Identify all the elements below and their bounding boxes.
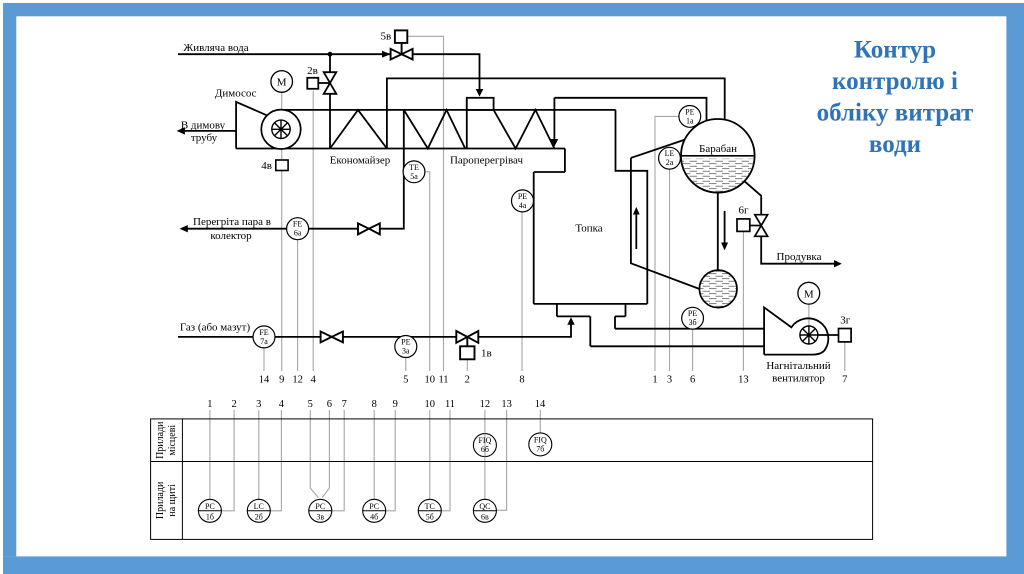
svg-text:14: 14	[259, 374, 270, 385]
instrument LE 2а	[659, 147, 681, 169]
drum water hatch	[681, 159, 754, 192]
instrument PE 1а	[679, 106, 701, 128]
svg-text:7: 7	[342, 399, 347, 410]
superheater coil right	[494, 110, 555, 149]
signal line 11 from valve 5в	[407, 36, 443, 371]
link 11	[441, 410, 450, 511]
svg-text:6: 6	[327, 399, 332, 410]
svg-text:М: М	[804, 288, 814, 300]
drum feed down arrow	[551, 139, 559, 147]
smoke fan wheel	[272, 120, 290, 138]
gas burner pipe	[178, 322, 571, 337]
air duct upper line	[615, 316, 764, 328]
svg-text:FE: FE	[259, 328, 268, 337]
svg-text:колектор: колектор	[210, 230, 252, 242]
svg-text:4: 4	[279, 399, 285, 410]
svg-text:води: води	[869, 131, 921, 158]
svg-text:PE: PE	[688, 309, 697, 318]
svg-text:місцеві: місцеві	[167, 425, 178, 456]
svg-text:PE: PE	[518, 192, 527, 201]
furnace right wall	[616, 110, 648, 304]
svg-text:Топка: Топка	[575, 223, 602, 235]
superheater coil left	[404, 110, 465, 149]
svg-text:PC: PC	[369, 502, 379, 511]
svg-text:Продувка: Продувка	[777, 251, 822, 263]
signal line 12 from FE 6а	[297, 240, 299, 371]
link 10	[429, 410, 431, 499]
svg-text:3г: 3г	[840, 315, 851, 327]
controller PC 1б	[198, 499, 221, 522]
svg-text:Прилади: Прилади	[155, 481, 166, 519]
signal line 14 from FE 7а	[263, 348, 265, 371]
svg-text:6г: 6г	[738, 205, 749, 217]
svg-text:5в: 5в	[380, 31, 391, 43]
signal line 1 from PE 1а	[655, 116, 679, 371]
fan outlet pipe	[818, 334, 839, 336]
svg-text:6а: 6а	[294, 229, 302, 238]
air fan wheel	[800, 326, 818, 344]
link 7	[332, 410, 344, 511]
economizer outlet riser	[387, 78, 725, 148]
svg-text:12: 12	[480, 399, 491, 410]
svg-text:4а: 4а	[519, 201, 527, 210]
svg-text:2б: 2б	[255, 512, 263, 521]
svg-text:6: 6	[690, 374, 695, 385]
svg-text:FIQ: FIQ	[478, 436, 491, 445]
economizer coil	[330, 110, 387, 149]
svg-text:Контур: Контур	[854, 37, 936, 64]
downcomer arrow	[724, 211, 726, 244]
branch to valve 2в	[329, 54, 331, 148]
svg-text:7а: 7а	[260, 337, 268, 346]
svg-text:1а: 1а	[686, 116, 694, 125]
superheater steam outlet pipe	[187, 110, 404, 229]
svg-text:PC: PC	[205, 502, 215, 511]
link 5	[310, 410, 318, 498]
svg-text:11: 11	[438, 374, 448, 385]
blowdown pipe from drum	[744, 181, 836, 264]
link 2	[222, 410, 235, 511]
svg-text:3: 3	[256, 399, 261, 410]
signal line 2 from valve 1в	[466, 359, 468, 371]
riser diagonal to drum	[631, 140, 684, 158]
smoke fan impeller circle	[261, 110, 300, 149]
signal line 3 from LE 2а	[669, 169, 671, 371]
svg-text:В димову: В димову	[181, 120, 226, 132]
svg-text:3в: 3в	[316, 512, 324, 521]
table frame	[151, 419, 873, 540]
svg-text:5: 5	[308, 399, 313, 410]
frame left band	[3, 3, 16, 556]
instrument PE 3б	[682, 307, 704, 329]
svg-text:обліку витрат: обліку витрат	[817, 100, 974, 127]
drum water level line	[681, 155, 755, 157]
svg-text:6в: 6в	[481, 512, 489, 521]
svg-text:FIQ: FIQ	[534, 435, 547, 444]
svg-text:5б: 5б	[426, 512, 434, 521]
signal line 8 from PE 4а	[521, 212, 523, 371]
svg-text:LC: LC	[254, 502, 264, 511]
valve 2в control valve	[307, 72, 336, 94]
row divider	[151, 461, 873, 463]
lower drum	[699, 270, 737, 308]
signal line 9 from motor M / damper 4в	[281, 93, 283, 372]
svg-text:TC: TC	[425, 502, 435, 511]
attemperator box	[467, 98, 494, 110]
flue duct bottom line	[236, 148, 565, 150]
instrument PE 3а	[395, 336, 417, 358]
junction node	[328, 52, 333, 57]
furnace left wall	[533, 172, 535, 304]
svg-text:TE: TE	[409, 163, 419, 172]
riser arrowhead	[633, 207, 640, 215]
downcomer arrowhead	[721, 243, 728, 251]
svg-text:10: 10	[424, 374, 435, 385]
controller QC 6в	[473, 499, 496, 522]
drum water feed pipe	[554, 98, 706, 141]
air duct lower line	[590, 316, 764, 346]
svg-text:FE: FE	[293, 220, 302, 229]
svg-text:М: М	[277, 77, 287, 89]
signal line 13 from valve 6г	[742, 231, 744, 371]
link 14	[539, 410, 541, 433]
svg-text:PE: PE	[685, 107, 694, 116]
frame top band	[3, 3, 1024, 16]
svg-text:13: 13	[738, 374, 749, 385]
furnace bottom	[534, 303, 648, 305]
link 3	[258, 410, 260, 499]
svg-text:Димосос: Димосос	[215, 88, 257, 100]
svg-text:13: 13	[501, 399, 512, 410]
controller TC 5б	[418, 499, 441, 522]
svg-text:3: 3	[667, 374, 672, 385]
link 1	[209, 410, 211, 499]
valve 1в control valve	[456, 331, 478, 359]
instrument TE 5а	[403, 161, 425, 183]
furnace hopper	[557, 304, 626, 317]
svg-text:1б: 1б	[206, 512, 214, 521]
link 8	[373, 410, 375, 499]
svg-text:Прилади: Прилади	[155, 421, 166, 459]
svg-text:6б: 6б	[481, 445, 489, 454]
chimney arrow	[177, 127, 185, 134]
svg-text:1в: 1в	[481, 348, 492, 360]
damper actuator 4в	[276, 160, 288, 171]
drum to lower drum pipe	[717, 193, 719, 271]
svg-text:2: 2	[231, 399, 236, 410]
instrument FIQ 7б	[529, 433, 552, 456]
svg-text:4: 4	[311, 374, 317, 385]
signal line 10 from TE 5а	[425, 172, 430, 371]
air fan motor M	[798, 282, 820, 304]
steam arrow to collector	[180, 225, 188, 232]
signal line 5 from PE 3а	[405, 358, 407, 372]
motor shaft line air fan	[808, 304, 810, 335]
feed flow arrow	[382, 51, 391, 58]
svg-text:Перегріта пара в: Перегріта пара в	[193, 216, 271, 228]
svg-text:8: 8	[519, 374, 524, 385]
fan air fan housing Нагнітальний вентилятор	[764, 307, 828, 354]
controller LC 2б	[247, 499, 270, 522]
frame right band	[1006, 3, 1024, 574]
flue duct top line	[281, 109, 616, 111]
svg-text:12: 12	[292, 374, 303, 385]
svg-text:1: 1	[207, 399, 212, 410]
svg-text:Газ (або мазут): Газ (або мазут)	[180, 322, 251, 334]
valve 5в control valve	[391, 30, 413, 59]
furnace top left	[534, 149, 565, 173]
svg-text:на щиті: на щиті	[167, 484, 178, 517]
blowdown arrow Продувка	[834, 260, 842, 267]
damper actuator 3г	[839, 329, 852, 342]
controller PC 3в	[309, 499, 332, 522]
svg-text:Пароперегрівач: Пароперегрівач	[450, 155, 524, 167]
svg-text:3б: 3б	[689, 318, 697, 327]
svg-text:7б: 7б	[536, 444, 544, 453]
svg-text:Живляча вода: Живляча вода	[183, 42, 248, 54]
svg-text:8: 8	[372, 399, 377, 410]
svg-text:Барабан: Барабан	[699, 143, 737, 155]
instrument PE 4а	[512, 190, 534, 212]
svg-text:10: 10	[425, 399, 436, 410]
link 12	[484, 410, 486, 499]
gas up arrow	[567, 317, 574, 325]
svg-text:LE: LE	[665, 149, 675, 158]
svg-text:3а: 3а	[402, 347, 410, 356]
svg-text:2а: 2а	[666, 158, 674, 167]
label column divider	[181, 419, 183, 540]
signal line 6 from PE 3б	[692, 329, 694, 371]
signal line 7 from damper 3г	[844, 342, 846, 371]
table connector lines	[210, 410, 540, 511]
signal line 4 from valve 2в	[312, 91, 314, 371]
svg-text:1: 1	[652, 374, 657, 385]
svg-text:Економайзер: Економайзер	[330, 155, 391, 167]
svg-text:2в: 2в	[307, 65, 318, 77]
attemperator box edge	[466, 98, 468, 149]
steam line valve	[358, 223, 380, 234]
link 13	[497, 410, 507, 510]
svg-text:4б: 4б	[370, 512, 378, 521]
link 6	[322, 410, 329, 498]
link 9	[386, 410, 395, 511]
instrument FIQ 6б	[473, 434, 496, 457]
table column numbers	[207, 399, 546, 410]
feed water pipe Живляча вода	[178, 54, 480, 90]
valve 6г blowdown valve	[737, 215, 768, 237]
smoke fan housing Димосос	[236, 102, 267, 149]
svg-text:11: 11	[445, 399, 455, 410]
svg-text:2: 2	[465, 374, 470, 385]
svg-text:14: 14	[535, 399, 546, 410]
riser up arrow	[635, 213, 637, 249]
steam drum Барабан	[681, 119, 755, 193]
gas line valve	[321, 332, 343, 343]
attemperator down arrow	[476, 89, 484, 97]
chimney pipe В димову трубу	[184, 130, 236, 132]
svg-text:трубу: трубу	[191, 132, 218, 144]
svg-text:5: 5	[403, 374, 408, 385]
svg-text:контролю і: контролю і	[832, 68, 958, 95]
svg-text:Нагнітальний: Нагнітальний	[766, 360, 830, 372]
link 4	[270, 410, 281, 511]
svg-text:9: 9	[279, 374, 284, 385]
svg-text:9: 9	[393, 399, 398, 410]
controller PC 4б	[363, 499, 386, 522]
riser channel wall and downcomer to lower drum	[631, 158, 700, 289]
svg-text:PC: PC	[315, 502, 325, 511]
svg-text:7: 7	[842, 374, 847, 385]
svg-text:вентилятор: вентилятор	[772, 373, 825, 385]
frame bottom band	[3, 556, 1024, 574]
svg-text:4в: 4в	[261, 160, 272, 172]
svg-text:5а: 5а	[410, 172, 418, 181]
instrument FE 7а	[253, 326, 275, 348]
svg-text:QC: QC	[479, 502, 490, 511]
instrument FE 6а	[287, 218, 309, 240]
smoke fan motor M	[271, 71, 293, 93]
svg-text:PE: PE	[401, 338, 410, 347]
